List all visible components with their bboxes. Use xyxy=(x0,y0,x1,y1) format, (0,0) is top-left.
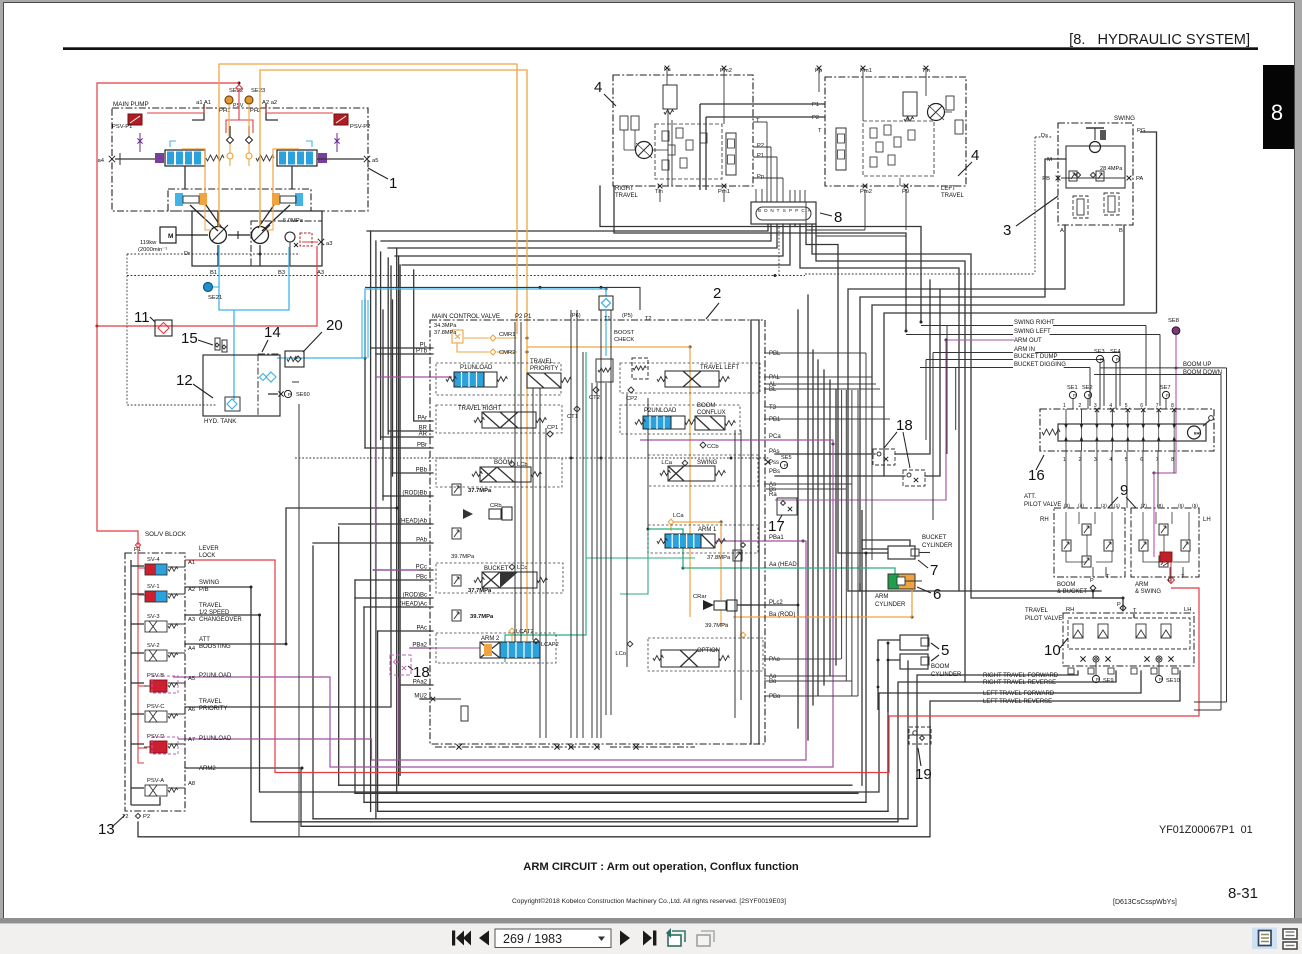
chapter tab xyxy=(1263,65,1294,149)
orange pilot lines top xyxy=(219,64,517,334)
nav prev icon xyxy=(479,931,489,946)
travel motor block RIGHT TRAVEL xyxy=(613,75,753,186)
pump sub box right (relief) xyxy=(251,221,322,266)
wire bundle: left vertical feeders into MCV ports xyxy=(370,231,372,811)
wire bundle: MCV right vertical cluster xyxy=(750,320,752,744)
bucket head feed xyxy=(862,540,910,546)
orange vertical right in MCV xyxy=(527,347,690,617)
red pilot valve element xyxy=(1160,552,1172,562)
single page view icon (active) xyxy=(1252,928,1277,950)
PSV-P2 xyxy=(334,114,348,125)
MCV bottom dashdot xyxy=(435,746,600,748)
check valve 19 xyxy=(909,727,931,744)
SE60 xyxy=(278,391,283,396)
swing inner valves xyxy=(1073,196,1088,218)
tank drain down xyxy=(298,404,300,837)
swing PG line down xyxy=(1140,132,1157,313)
right edge drops xyxy=(1226,368,1228,702)
PSV-P1 xyxy=(128,114,142,125)
red solv feeders xyxy=(138,549,144,763)
orange LCAT2 to ARM2 xyxy=(509,628,515,634)
pump circles xyxy=(210,227,227,244)
wire bundle: swing return staircase xyxy=(848,225,1065,591)
drive shaft xyxy=(176,234,208,236)
SCHEM xyxy=(138,159,1180,837)
signal row left drops xyxy=(946,326,948,455)
red lever-lock long route xyxy=(185,560,1199,773)
wire bundle: mid horizontals to cylinders xyxy=(775,453,875,455)
solv block outline xyxy=(125,553,185,811)
travel left feeds xyxy=(700,103,825,105)
SE9 SE10 xyxy=(1092,675,1099,682)
nav last icon xyxy=(643,931,652,946)
component 18 right pair xyxy=(873,449,895,465)
wire bundle: manifold east staircase xyxy=(600,186,921,322)
cyan pilot hooks xyxy=(170,141,176,147)
main pump block 1 outline xyxy=(112,108,368,211)
next-view icon (grayed) xyxy=(697,931,714,946)
travel drop lines xyxy=(659,189,661,202)
wire bundle: MCV left port stubs xyxy=(371,347,433,349)
wire bundle: solenoid block outputs xyxy=(185,587,1116,822)
header rule xyxy=(63,47,1258,50)
two page view icon xyxy=(1283,929,1297,939)
small relief bottom xyxy=(461,706,468,721)
right travel port connectors xyxy=(753,121,767,123)
PLc2 line xyxy=(740,604,798,606)
orange tilt feeds xyxy=(182,149,205,193)
filter 11 xyxy=(155,320,172,336)
CT CP diamonds xyxy=(593,387,599,393)
green conflux lines xyxy=(505,352,586,662)
port drops to ATT valve xyxy=(1065,451,1067,508)
tpv internals xyxy=(1073,624,1083,638)
wire bundle: bottom fan rows xyxy=(339,784,852,786)
SE5 xyxy=(765,459,770,464)
MCV internal galleries xyxy=(514,322,516,642)
SE21 xyxy=(204,283,213,292)
SE22 SE23 sensors xyxy=(225,96,233,104)
orange CMR lines xyxy=(497,337,517,339)
component 18 left xyxy=(390,655,411,675)
purple P1unload A7 route xyxy=(178,541,806,760)
purple arm out row xyxy=(775,340,1014,500)
a4 a5 ports xyxy=(109,156,115,162)
pump housing box xyxy=(192,211,322,266)
nav next icon xyxy=(620,931,630,946)
dotted drain line long xyxy=(127,275,805,277)
right cluster extra verticals xyxy=(841,390,843,659)
bucket cylinder 7 xyxy=(888,546,915,559)
label 2 arrow xyxy=(706,303,719,319)
regulator right xyxy=(277,150,317,166)
travel motor block LEFT TRAVEL xyxy=(825,77,966,186)
dotted box pump lower xyxy=(127,254,216,405)
orange CRar assembly xyxy=(670,525,672,531)
component 17 xyxy=(777,498,797,515)
cylinder feeds xyxy=(862,510,888,549)
MCV dashed section boxes xyxy=(436,363,561,395)
purple PCb feed xyxy=(376,377,453,570)
relief valve a3 red xyxy=(300,233,312,246)
wire bundle: right columns near cylinders xyxy=(865,553,867,802)
solv dashed boxes PSV-B PSV-D xyxy=(152,676,178,693)
wire bundle: top staircase from manifold 8 to MCV left xyxy=(367,224,768,231)
arm cylinder 6 xyxy=(888,574,899,589)
svg-text:269 / 1983: 269 / 1983 xyxy=(503,932,562,946)
orange arm rod line xyxy=(733,589,912,617)
manifold block 8 xyxy=(751,202,816,224)
red relief to a3 xyxy=(97,246,317,326)
junction dots xyxy=(396,507,399,510)
purple P2unload A5 route xyxy=(173,440,833,767)
black diamonds PH xyxy=(227,137,234,144)
boom cylinders 5 xyxy=(900,635,928,650)
remote control valve 16 xyxy=(1040,409,1214,451)
page box xyxy=(495,929,611,948)
swing dotted Ds xyxy=(1034,137,1036,274)
manifold risers xyxy=(766,190,768,202)
relief valves MCV left column xyxy=(452,484,461,495)
P T feed lines xyxy=(971,598,1123,611)
pump internal wires xyxy=(192,104,204,120)
hyd tank xyxy=(203,355,280,416)
nav first-page icon xyxy=(452,931,471,946)
solv internal left bus xyxy=(130,560,132,805)
label 1 xyxy=(368,168,388,179)
purple SE8 drop xyxy=(1154,334,1176,557)
wire: ATT pilot feed P xyxy=(848,590,1101,592)
tpv bottom ports xyxy=(1068,668,1074,674)
swing motor block 3 xyxy=(1058,123,1133,225)
diagonals to swash xyxy=(190,205,218,231)
prev-view icon xyxy=(666,928,685,946)
motor box M xyxy=(160,227,176,243)
MCV boundary 2 xyxy=(430,320,765,744)
tilt cylinder box xyxy=(168,189,311,211)
travel top stubs xyxy=(666,70,668,85)
P line down from boom&bucket xyxy=(1092,591,1094,598)
red main pilot wires xyxy=(97,83,239,545)
regulator left xyxy=(165,150,205,166)
cyan suction lines xyxy=(219,245,289,310)
cyan boost check xyxy=(599,296,613,310)
P1 P2 supply line above MCV xyxy=(365,287,640,310)
